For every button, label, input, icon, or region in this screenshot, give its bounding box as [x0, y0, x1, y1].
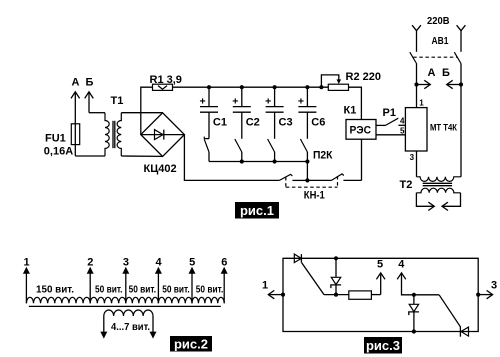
220V supply terminals — [412, 15, 465, 52]
switch under C6 (P2K section 4) — [300, 139, 307, 162]
svg-text:Т1: Т1 — [111, 95, 124, 107]
svg-text:П2К: П2К — [313, 150, 333, 162]
svg-text:6: 6 — [221, 257, 227, 269]
svg-text:рис.1: рис.1 — [240, 203, 274, 218]
svg-text:0,16А: 0,16А — [44, 146, 73, 158]
svg-text:А: А — [428, 67, 436, 79]
button KN-1 contact 2 — [307, 174, 361, 181]
svg-text:FU1: FU1 — [45, 133, 66, 145]
svg-text:+: + — [232, 96, 238, 108]
svg-text:КЦ402: КЦ402 — [144, 163, 177, 175]
svg-text:+: + — [200, 96, 206, 108]
T2 secondary output arrows — [416, 193, 460, 211]
outer loop rectangle — [283, 258, 478, 331]
button KN-1 contact 1 — [279, 174, 307, 180]
feedback winding 4...7 vit — [100, 310, 156, 339]
svg-text:К1: К1 — [344, 105, 357, 117]
svg-text:C6: C6 — [311, 117, 325, 129]
diode top-left — [294, 254, 301, 263]
svg-text:1: 1 — [24, 257, 30, 269]
svg-text:РЭС: РЭС — [350, 125, 372, 137]
relay K1 (RES coil) — [344, 105, 377, 140]
terminal 5 — [376, 258, 385, 294]
terminal 4 — [397, 258, 439, 295]
svg-text:Б: Б — [442, 67, 450, 79]
svg-text:150 вит.: 150 вит. — [36, 284, 74, 296]
svg-text:+: + — [265, 96, 271, 108]
transformer T1 — [105, 95, 123, 156]
svg-text:1: 1 — [262, 280, 268, 292]
fuse FU1 0,16A — [44, 124, 80, 158]
svg-text:4: 4 — [398, 258, 405, 270]
svg-text:R2 220: R2 220 — [346, 71, 381, 83]
wire diagonal from top diode to middle rail — [302, 263, 324, 295]
capacitor C3 — [265, 87, 292, 139]
wire AB1 right down to T2 — [460, 64, 462, 177]
wire bridge plus corner up to R1 — [141, 87, 153, 134]
wire R2 to relay top — [349, 87, 362, 119]
wire bridge minus corner down and right — [184, 135, 279, 181]
resistor R1 3,9 (fusible) — [150, 74, 182, 90]
resistor R2 220 (rheostat) — [321, 71, 381, 90]
wire T1 secondary bottom to bridge bottom corner — [121, 155, 162, 157]
top plus rail — [173, 86, 329, 88]
figure label ris.2 — [170, 336, 212, 352]
svg-text:50 вит.: 50 вит. — [196, 284, 224, 296]
node A (left input terminal) — [71, 77, 80, 157]
svg-text:3: 3 — [123, 257, 129, 269]
svg-text:+: + — [298, 96, 304, 108]
switch under C1 (P2K section 1) — [204, 137, 209, 162]
wire diagonal to bottom diode — [439, 295, 460, 327]
wire relay to pin 5 — [376, 134, 405, 136]
core line ris.2 — [29, 305, 221, 307]
svg-text:C1: C1 — [213, 117, 227, 129]
svg-text:Т2: Т2 — [400, 179, 413, 191]
terminal 1 — [262, 280, 285, 299]
wire T1 secondary top to bridge top corner — [121, 112, 162, 114]
svg-text:Б: Б — [86, 77, 94, 89]
KN-1 mechanical link (dashed) — [286, 176, 338, 202]
figure label ris.3 — [364, 337, 402, 354]
relay contact P1 — [376, 107, 405, 126]
svg-text:А: А — [72, 77, 80, 89]
node B (left input terminal) — [85, 77, 94, 113]
svg-text:50 вит.: 50 вит. — [95, 284, 123, 296]
winding taps 1-6 — [23, 257, 30, 304]
svg-text:220В: 220В — [427, 15, 450, 27]
svg-text:МТ Т4К: МТ Т4К — [430, 123, 457, 133]
svg-text:4...7 вит.: 4...7 вит. — [111, 321, 150, 333]
svg-text:3: 3 — [410, 153, 415, 162]
svg-text:5: 5 — [400, 127, 405, 136]
breaker AB1 — [410, 35, 461, 64]
device MT T4K box — [405, 108, 457, 151]
zener diode left — [331, 256, 341, 297]
resistor in ris.3 — [349, 291, 372, 299]
bottom capacitor rail — [209, 161, 307, 163]
svg-text:C3: C3 — [279, 117, 293, 129]
svg-text:2: 2 — [87, 257, 93, 269]
wire B to T1 primary top — [89, 112, 105, 114]
transformer T2 — [400, 177, 462, 193]
svg-text:5: 5 — [189, 257, 195, 269]
wire AB1 left down to MT pin1 — [416, 64, 418, 108]
svg-text:50 вит.: 50 вит. — [162, 284, 190, 296]
svg-text:50 вит.: 50 вит. — [129, 284, 157, 296]
wire KN-1 up to relay coil — [361, 139, 363, 180]
figure label ris.1 — [235, 202, 279, 219]
svg-text:КН-1: КН-1 — [304, 190, 325, 202]
diode bottom-right — [460, 327, 468, 337]
node A (right, arrow) — [414, 67, 435, 89]
svg-text:рис.2: рис.2 — [174, 336, 208, 351]
wire cap rail down to KN-1 line — [306, 162, 308, 181]
bridge rectifier KC402 — [141, 113, 185, 175]
svg-text:Р1: Р1 — [383, 107, 396, 119]
zener diode right — [409, 293, 419, 334]
capacitor C1 — [200, 87, 227, 138]
svg-text:4: 4 — [156, 257, 163, 269]
middle rail left — [324, 294, 349, 296]
svg-text:1: 1 — [419, 98, 424, 107]
wire MT pin3 down — [416, 151, 418, 177]
svg-text:АВ1: АВ1 — [432, 35, 449, 47]
capacitor C6 — [298, 87, 325, 139]
node junction dots on top rail — [207, 85, 211, 89]
capacitor C2 — [232, 87, 259, 139]
node B (right, arrow) — [442, 67, 463, 89]
svg-text:3: 3 — [491, 280, 497, 292]
main winding ris.2 — [26, 297, 224, 303]
terminal 3 — [476, 280, 497, 299]
svg-text:4: 4 — [400, 116, 405, 125]
svg-text:рис.3: рис.3 — [366, 338, 400, 353]
switch under C3 (P2K section 3) — [268, 139, 275, 162]
svg-text:5: 5 — [377, 258, 383, 270]
middle rail right of resistor — [371, 294, 380, 296]
switch under C2 (P2K section 2) — [235, 139, 242, 162]
svg-text:C2: C2 — [246, 117, 260, 129]
wire A bottom to T1 primary — [75, 155, 105, 157]
